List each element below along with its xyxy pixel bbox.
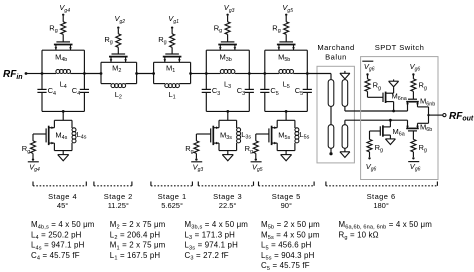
port RFout label: [449, 111, 474, 123]
wire stub to shunt box stage 3: [227, 111, 229, 120]
value L3s: [185, 241, 239, 252]
wire shunt box top stage 3: [219, 119, 237, 121]
wire V5 to Rg: [285, 16, 287, 22]
ground M6a: [385, 139, 395, 145]
capacitor C5 left: [260, 89, 269, 92]
value M5b: [261, 220, 320, 231]
svg-text:C5: C5: [270, 86, 278, 97]
node Vg6bar top terminal: [366, 73, 368, 75]
svg-text:Vg1: Vg1: [168, 14, 179, 25]
wire box top edge stage 2: [101, 61, 137, 63]
supply V4: [59, 3, 70, 14]
resistor Rg (V5 gate): [272, 22, 288, 35]
node V3 terminal: [226, 14, 228, 16]
node bottom center stage 4: [62, 110, 65, 113]
svg-text:M6nb: M6nb: [420, 97, 435, 108]
svg-text:L3s: L3s: [241, 130, 251, 141]
node stage 4 left: [41, 72, 44, 75]
wire gate lead M4b: [62, 34, 64, 42]
svg-text:RFin: RFin: [3, 69, 23, 81]
value L2: [110, 230, 161, 241]
svg-text:Rg: Rg: [22, 144, 30, 155]
svg-text:L3: L3: [224, 79, 231, 90]
ground stage 5: [281, 151, 292, 161]
node stage 5 left: [263, 72, 266, 75]
balun coupled line 1: [328, 80, 334, 107]
svg-text:Rg: Rg: [373, 81, 381, 92]
svg-text:Rg: Rg: [49, 24, 57, 35]
node bottom center stage 3: [226, 110, 229, 113]
value L5s: [261, 251, 315, 262]
wire gate lead M1: [171, 47, 173, 54]
wire M6nb source stub: [407, 102, 409, 111]
value L4s: [31, 241, 85, 252]
balun coupled line 4: [342, 125, 348, 149]
inductor L2: [111, 84, 126, 101]
svg-text:Stage 6: Stage 6: [367, 192, 396, 201]
svg-text:C3 = 27.2 fF: C3 = 27.2 fF: [185, 251, 229, 262]
transistor M4s: [46, 126, 68, 145]
value M4bs: [31, 220, 95, 231]
node V3bar terminal: [195, 158, 197, 160]
node stage 2 right: [135, 72, 138, 75]
svg-text:C5 = 45.75 fF: C5 = 45.75 fF: [261, 261, 310, 272]
value M5s: [261, 230, 320, 241]
wire M6a source to ground: [389, 135, 391, 139]
value L3: [185, 230, 236, 241]
wire shunt box top stage 4: [54, 119, 72, 121]
wire main line stage 4: [42, 73, 84, 75]
svg-text:L5 = 456.6 pH: L5 = 456.6 pH: [261, 241, 312, 252]
svg-text:Vg5: Vg5: [252, 162, 263, 173]
transistor M6a: [380, 125, 404, 137]
transistor M3b: [218, 42, 237, 63]
resistor Rg (V4bar gate): [22, 141, 36, 155]
label Stage 4: [48, 192, 77, 210]
wire shunt box top stage 5: [277, 119, 295, 121]
svg-text:5.625°: 5.625°: [161, 201, 183, 210]
supply V5bar: [251, 162, 263, 173]
wire right rail stage 3: [248, 50, 250, 111]
svg-text:L4s: L4s: [77, 130, 87, 141]
svg-text:Vg4: Vg4: [29, 162, 40, 173]
svg-text:Rg: Rg: [375, 143, 383, 154]
supply V1: [168, 14, 179, 25]
value C4: [31, 251, 80, 262]
wire right rail stage 1: [190, 62, 192, 83]
svg-text:C3: C3: [212, 86, 220, 97]
ground stage 3: [222, 151, 233, 161]
ground balun bottom: [340, 148, 350, 157]
transistor M2: [109, 54, 128, 74]
node V5bar terminal: [255, 158, 257, 160]
svg-text:90°: 90°: [281, 201, 292, 210]
svg-text:Vg6: Vg6: [410, 62, 421, 73]
wire shunt box left edge stage 5: [276, 120, 278, 150]
value L5: [261, 241, 312, 252]
supply Vg6bar top: [362, 61, 374, 72]
label C4 right: [72, 86, 80, 97]
svg-text:L4 = 250.2 pH: L4 = 250.2 pH: [31, 230, 82, 241]
capacitor C4 right: [80, 89, 89, 92]
wire shunt box bottom stage 3: [219, 150, 237, 152]
supply Vg6 top: [410, 62, 421, 73]
wire gate M4s to Rg: [33, 134, 46, 141]
svg-text:22.5°: 22.5°: [219, 201, 237, 210]
wire M6b source stub: [407, 120, 409, 128]
transistor M4b: [54, 42, 73, 63]
node stage 4 right: [83, 72, 86, 75]
svg-text:M3b: M3b: [219, 52, 231, 63]
node stage 3 right: [248, 72, 251, 75]
svg-text:M6b: M6b: [420, 123, 432, 134]
svg-text:Rg: Rg: [272, 24, 280, 35]
svg-text:Rg: Rg: [419, 81, 427, 92]
wire box bottom edge stage 1: [154, 83, 191, 85]
wire left rail stage 2: [100, 62, 102, 83]
wire gate lead M5b: [285, 34, 287, 42]
svg-text:L3 = 171.3 pH: L3 = 171.3 pH: [185, 230, 236, 241]
svg-text:Vg6: Vg6: [364, 62, 375, 73]
label Marchand Balun: [317, 43, 354, 61]
wire right rail stage 5: [306, 50, 308, 111]
svg-text:Vg3: Vg3: [224, 3, 235, 14]
resistor Rg top-left: [365, 79, 381, 92]
inductor L4s: [72, 128, 87, 143]
wire left rail stage 4: [41, 50, 43, 111]
wire stub to shunt box stage 5: [285, 111, 287, 120]
svg-text:Rg: Rg: [158, 35, 166, 46]
node V4bar terminal: [32, 158, 34, 160]
svg-text:Rg: Rg: [419, 143, 427, 154]
wire Vg6bar to Rg top-left: [367, 76, 369, 79]
svg-text:Vg6: Vg6: [410, 162, 421, 173]
svg-text:L1 = 167.5 pH: L1 = 167.5 pH: [110, 251, 161, 262]
label Stage 5: [272, 192, 301, 210]
wire left rail stage 5: [264, 50, 266, 111]
wire gate M6a to Rg: [370, 131, 381, 139]
wire M6na source to line: [393, 102, 395, 111]
svg-text:Stage 3: Stage 3: [213, 192, 242, 201]
brace stage 3: [198, 182, 253, 186]
resistor Rg (V5bar gate): [245, 141, 259, 155]
wire V4 to Rg: [62, 16, 64, 22]
wire V1 to Rg: [171, 29, 173, 34]
label Stage 1: [158, 192, 187, 210]
value M3bs: [185, 220, 249, 231]
node Vg6 bottom terminal: [368, 157, 370, 159]
svg-text:L2 = 206.4 pH: L2 = 206.4 pH: [110, 230, 161, 241]
svg-text:M3s: M3s: [220, 130, 232, 141]
wire bridge top edge stage 5: [265, 49, 308, 51]
transistor M3s: [211, 126, 233, 145]
wire Rg to gate M6na: [368, 91, 384, 97]
svg-text:L4: L4: [60, 79, 67, 90]
wire gate M3s to Rg: [196, 134, 210, 141]
svg-text:M5b = 2 x 50 μm: M5b = 2 x 50 μm: [261, 220, 320, 231]
capacitor C3 left: [202, 89, 211, 92]
wire Rg to Vg6bar bottom-right: [412, 152, 414, 157]
wire Rg to V5bar: [255, 153, 257, 158]
wire gate M5s to Rg: [256, 134, 269, 141]
value C3: [185, 251, 229, 262]
wire balun line1 to line3: [330, 106, 332, 124]
value C5: [261, 261, 310, 272]
resistor Rg bottom-left: [367, 139, 383, 153]
node V5 terminal: [285, 14, 287, 16]
value M1: [110, 241, 166, 252]
svg-text:L5s = 904.3 pH: L5s = 904.3 pH: [261, 251, 315, 262]
svg-text:L5s: L5s: [300, 130, 310, 141]
label Stage 3: [213, 192, 242, 210]
wire V2 to Rg: [117, 29, 119, 34]
label C5 right: [295, 86, 303, 97]
wire bottom rail stage 4: [42, 110, 84, 112]
supply V5: [282, 3, 293, 14]
svg-text:M5s: M5s: [278, 130, 290, 141]
resistor Rg (V4 gate): [49, 22, 65, 35]
transistor M6b: [406, 123, 432, 134]
transistor M5b: [277, 42, 296, 63]
svg-text:RFout: RFout: [449, 111, 474, 123]
label C4 left: [48, 86, 56, 97]
wire balun out minus: [345, 120, 408, 125]
wire balun out plus: [345, 106, 408, 111]
label C3 right: [237, 86, 245, 97]
inductor L5s: [295, 128, 310, 143]
wire shunt box bottom stage 5: [277, 150, 295, 152]
inductor L1: [165, 84, 180, 101]
resistor Rg (V2 gate): [104, 34, 120, 48]
svg-text:Stage 1: Stage 1: [158, 192, 187, 201]
capacitor C4 left: [37, 89, 46, 92]
svg-text:Stage 2: Stage 2: [104, 192, 133, 201]
label SPDT Switch: [375, 43, 425, 52]
supply V3bar: [191, 162, 203, 173]
brace stage 2: [94, 182, 132, 186]
value M2: [110, 220, 166, 231]
wire shunt box bottom stage 4: [54, 150, 72, 152]
node M6na junction: [392, 110, 395, 113]
inductor L3: [220, 70, 235, 90]
brace stage 5: [259, 182, 315, 186]
wire RFin to stage4: [26, 73, 42, 75]
wire stage2 to stage1: [137, 73, 154, 75]
svg-text:Balun: Balun: [325, 53, 347, 62]
inductor L5: [279, 70, 294, 90]
svg-text:Vg6: Vg6: [366, 162, 377, 173]
resistor Rg bottom-right: [411, 139, 427, 153]
balun coupled line 3: [328, 125, 334, 149]
svg-text:11.25°: 11.25°: [108, 201, 129, 210]
node output junction: [427, 114, 429, 116]
svg-text:C5: C5: [295, 86, 303, 97]
node stage 1 right: [189, 72, 192, 75]
node stage 2 left: [100, 72, 103, 75]
capacitor C3 right: [245, 89, 254, 92]
wire stage1 to stage3: [191, 73, 207, 75]
svg-text:M3b,s = 4 x 50 μm: M3b,s = 4 x 50 μm: [185, 220, 249, 231]
svg-text:M6a,6b, 6na, 6nb = 4 x 50 μm: M6a,6b, 6na, 6nb = 4 x 50 μm: [339, 220, 433, 231]
svg-text:C4 = 45.75 fF: C4 = 45.75 fF: [31, 251, 80, 262]
svg-text:Marchand: Marchand: [317, 43, 354, 52]
wire shunt box right edge stage 5: [294, 120, 296, 150]
brace stage 4: [33, 182, 86, 186]
svg-text:M5b: M5b: [278, 52, 290, 63]
node balun open end: [329, 148, 332, 155]
wire Vg6 to Rg top-right: [412, 76, 414, 79]
label C5 left: [270, 86, 278, 97]
resistor Rg (V3bar gate): [185, 141, 199, 155]
wire M6a drain to line: [389, 120, 391, 127]
supply V4bar: [28, 162, 40, 173]
node V2 terminal: [117, 27, 119, 29]
svg-text:45°: 45°: [57, 201, 68, 210]
value L1: [110, 251, 161, 262]
wire left rail stage 3: [205, 50, 207, 111]
svg-text:C4: C4: [72, 86, 80, 97]
wire M6b drain to output: [418, 115, 429, 128]
resistor Rg (V1 gate): [158, 34, 174, 48]
wire shunt box left edge stage 4: [53, 120, 55, 150]
label Stage 6: [367, 192, 396, 210]
svg-text:Rg: Rg: [245, 144, 253, 155]
node stage 5 right: [306, 72, 309, 75]
wire Rg to V4bar: [32, 153, 34, 158]
resistor Rg (V3 gate): [214, 22, 230, 35]
wire stub to shunt box stage 4: [62, 111, 64, 120]
resistor Rg top-right: [411, 79, 427, 92]
wire box top edge stage 1: [154, 61, 191, 63]
wire stage4 to stage2: [84, 73, 101, 75]
label C3 left: [212, 86, 220, 97]
node bottom center stage 5: [285, 110, 288, 113]
transistor M6na: [383, 91, 407, 103]
value Rg: [339, 230, 379, 241]
svg-text:L4s = 947.1 pH: L4s = 947.1 pH: [31, 241, 85, 252]
node Vg6 top terminal: [412, 73, 414, 75]
wire right rail stage 4: [83, 50, 85, 111]
svg-text:SPDT Switch: SPDT Switch: [375, 43, 425, 52]
transistor M6nb: [406, 97, 435, 108]
wire Rg to V3bar: [195, 153, 197, 158]
wire stage5 to balun: [307, 74, 331, 80]
node V4 terminal: [62, 14, 64, 16]
wire right rail stage 2: [136, 62, 138, 83]
node stage 1 left: [152, 72, 155, 75]
supply Vg6 bottom: [366, 162, 377, 173]
wire box bottom edge stage 2: [101, 83, 137, 85]
svg-text:Vg3: Vg3: [193, 162, 204, 173]
svg-text:M2: M2: [112, 63, 121, 74]
capacitor C5 right: [303, 89, 312, 92]
svg-text:M4b,s = 4 x 50 μm: M4b,s = 4 x 50 μm: [31, 220, 95, 231]
svg-text:M4b: M4b: [55, 52, 67, 63]
wire gate lead M3b: [227, 34, 229, 42]
ground M6na: [389, 79, 399, 86]
node Vg6bar bottom terminal: [412, 157, 414, 159]
svg-text:Rg: Rg: [214, 24, 222, 35]
svg-text:Vg5: Vg5: [282, 3, 293, 14]
svg-text:L2: L2: [115, 90, 122, 101]
svg-text:M5s = 4 x 50 μm: M5s = 4 x 50 μm: [261, 230, 320, 241]
label Stage 2: [104, 192, 133, 210]
port RFin label: [3, 69, 23, 81]
wire Rg to gate M6nb: [412, 91, 414, 99]
wire V3 to Rg: [227, 16, 229, 22]
svg-text:Stage 5: Stage 5: [272, 192, 301, 201]
wire shunt box left edge stage 3: [218, 120, 220, 150]
svg-text:C4: C4: [48, 86, 56, 97]
ground stage 4: [58, 151, 69, 161]
inductor L4: [56, 70, 71, 90]
svg-text:M4s: M4s: [55, 130, 67, 141]
node RFin terminal: [25, 72, 28, 75]
supply Vg6bar bottom: [408, 162, 420, 173]
wire left rail stage 1: [153, 62, 155, 83]
svg-text:M2 = 2 x 75 μm: M2 = 2 x 75 μm: [110, 220, 166, 231]
svg-text:C3: C3: [237, 86, 245, 97]
svg-text:Vg2: Vg2: [115, 14, 126, 25]
svg-text:L3s = 974.1 pH: L3s = 974.1 pH: [185, 241, 239, 252]
svg-text:Rg = 10 kΩ: Rg = 10 kΩ: [339, 230, 379, 241]
transistor M1: [163, 54, 182, 74]
wire main line stage 5: [265, 73, 308, 75]
wire to RFout: [429, 114, 443, 116]
svg-text:Rg: Rg: [104, 35, 112, 46]
transistor M5s: [269, 126, 291, 145]
svg-text:L5: L5: [283, 79, 290, 90]
wire gate lead M2: [117, 47, 119, 54]
svg-text:Stage 4: Stage 4: [48, 192, 77, 201]
node stage 3 left: [205, 72, 208, 75]
value M6: [339, 220, 433, 231]
wire bottom rail stage 5: [265, 110, 308, 112]
supply V3: [224, 3, 235, 14]
wire main line stage 3: [206, 73, 249, 75]
svg-text:L1: L1: [169, 90, 176, 101]
brace stage 1: [151, 182, 193, 186]
svg-text:M1 = 2 x 75 μm: M1 = 2 x 75 μm: [110, 241, 166, 252]
balun box: [317, 66, 354, 163]
brace stage 6: [326, 182, 438, 186]
value L4: [31, 230, 82, 241]
svg-text:180°: 180°: [373, 201, 389, 210]
wire bridge top edge stage 4: [42, 49, 84, 51]
wire shunt box right edge stage 3: [236, 120, 238, 150]
node RFout terminal: [443, 114, 446, 117]
inductor L3s: [237, 128, 252, 143]
SPDT box: [361, 57, 438, 180]
wire stage3 to stage5: [249, 73, 264, 75]
svg-text:M1: M1: [166, 63, 175, 74]
svg-text:Vg4: Vg4: [59, 3, 70, 14]
node M6a junction: [389, 119, 392, 122]
wire M6nb drain to output: [418, 102, 429, 115]
wire M6na drain to ground: [393, 87, 395, 93]
wire Rg to Vg6 bottom-left: [369, 152, 371, 157]
wire gate lead M6b: [412, 131, 414, 140]
svg-text:Rg: Rg: [185, 144, 193, 155]
wire shunt box right edge stage 4: [71, 120, 73, 150]
balun coupled line 2: [342, 80, 348, 107]
wire bottom rail stage 3: [206, 110, 249, 112]
node V1 terminal: [171, 27, 173, 29]
svg-text:M6a: M6a: [393, 127, 405, 138]
wire bridge top edge stage 3: [206, 49, 249, 51]
ground balun top: [340, 71, 350, 79]
supply V2: [115, 14, 126, 25]
